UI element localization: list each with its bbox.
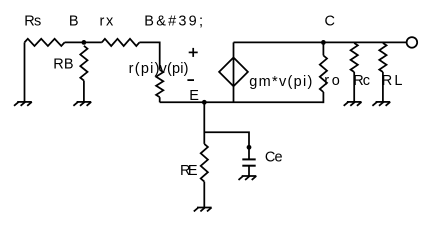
svg-text:B&#39;: B&#39;	[144, 14, 203, 30]
wire r(pi) bottom to E rail	[159, 97, 161, 102]
ground (input source)	[14, 102, 32, 106]
wire ro top lead	[322, 42, 324, 55]
node dot above Ce	[247, 145, 252, 150]
wire collector rail	[234, 41, 407, 43]
resistor rx	[102, 39, 140, 46]
svg-text:ro: ro	[324, 73, 340, 89]
node E junction dot	[202, 100, 207, 105]
label plus polarity	[189, 48, 198, 57]
svg-text:C: C	[325, 13, 335, 29]
label minus polarity	[187, 79, 194, 81]
output terminal circle	[407, 37, 418, 48]
wire: input left leg	[24, 42, 26, 102]
resistor Rs	[25, 39, 65, 46]
wire Rc to ground	[353, 72, 355, 102]
svg-text:gm*v(pi): gm*v(pi)	[249, 74, 312, 90]
wire RB to ground	[83, 81, 85, 102]
svg-text:RB: RB	[53, 57, 73, 73]
resistor Rc	[351, 43, 358, 72]
resistor r(pi)	[156, 70, 163, 97]
resistor RB	[80, 46, 87, 81]
wire Rs to B	[65, 41, 102, 43]
wire emitter rail	[160, 101, 324, 103]
resistor ro	[320, 56, 327, 93]
svg-text:E: E	[189, 88, 199, 104]
wire branch to Ce	[204, 132, 249, 159]
node C junction dot	[321, 40, 326, 45]
svg-text:Ce: Ce	[265, 150, 283, 166]
svg-text:Rs: Rs	[24, 14, 41, 30]
svg-text:v(pi): v(pi)	[160, 61, 189, 77]
svg-text:RE: RE	[180, 163, 198, 179]
ground (RB)	[73, 102, 91, 106]
svg-text:rx: rx	[100, 13, 114, 29]
ground (RL)	[372, 102, 390, 106]
wire Ce bottom stub	[248, 166, 250, 176]
wire RE to ground	[203, 182, 205, 208]
ground (Rc)	[344, 102, 362, 106]
resistor RL	[379, 43, 386, 72]
svg-text:B: B	[69, 13, 79, 29]
capacitor Ce plates	[242, 159, 255, 165]
svg-text:Rc: Rc	[353, 73, 370, 89]
ground (Ce)	[239, 176, 257, 180]
node B junction dot	[82, 40, 87, 45]
svg-text:RL: RL	[382, 73, 403, 89]
wire diamond bottom lead	[233, 86, 235, 102]
wire rx to B' corner	[139, 42, 159, 69]
wire ro bottom corner to E rail	[322, 92, 325, 102]
dependent current source gm*v(pi) diamond	[219, 58, 248, 87]
resistor RE	[201, 144, 208, 182]
ground (RE)	[194, 208, 212, 212]
wire diamond top lead	[233, 42, 235, 57]
wire E down to RE	[203, 102, 205, 144]
svg-text:r(pi): r(pi)	[129, 61, 160, 77]
wire RL to ground	[382, 72, 384, 102]
